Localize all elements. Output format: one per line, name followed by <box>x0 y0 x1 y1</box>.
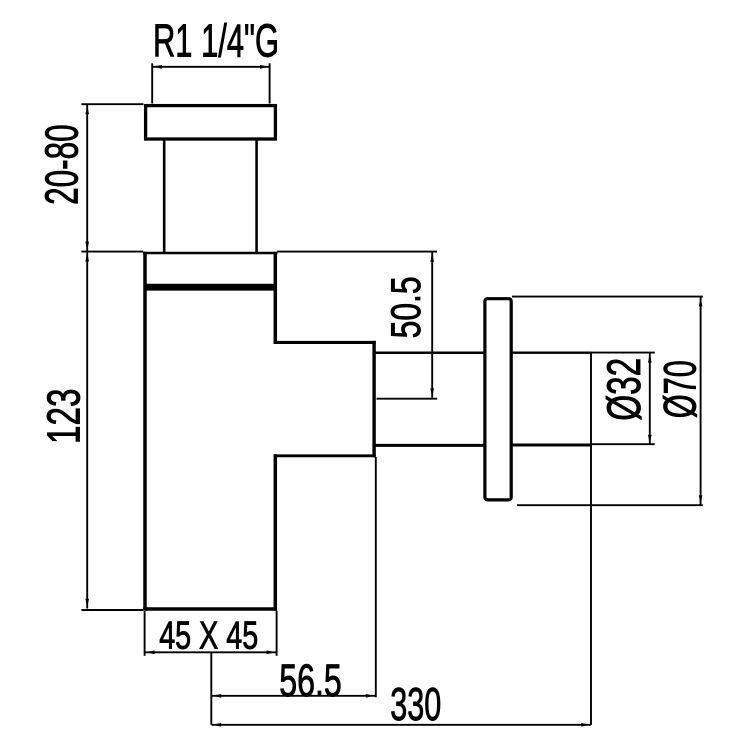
svg-text:45 X 45: 45 X 45 <box>159 615 258 658</box>
svg-text:Ø32: Ø32 <box>597 358 650 421</box>
svg-text:123: 123 <box>37 388 89 444</box>
svg-text:50.5: 50.5 <box>382 276 429 338</box>
svg-text:R1 1/4"G: R1 1/4"G <box>153 14 279 66</box>
svg-text:56.5: 56.5 <box>279 655 342 706</box>
svg-text:20-80: 20-80 <box>36 124 88 205</box>
svg-text:Ø70: Ø70 <box>654 360 705 418</box>
svg-text:330: 330 <box>390 678 441 730</box>
